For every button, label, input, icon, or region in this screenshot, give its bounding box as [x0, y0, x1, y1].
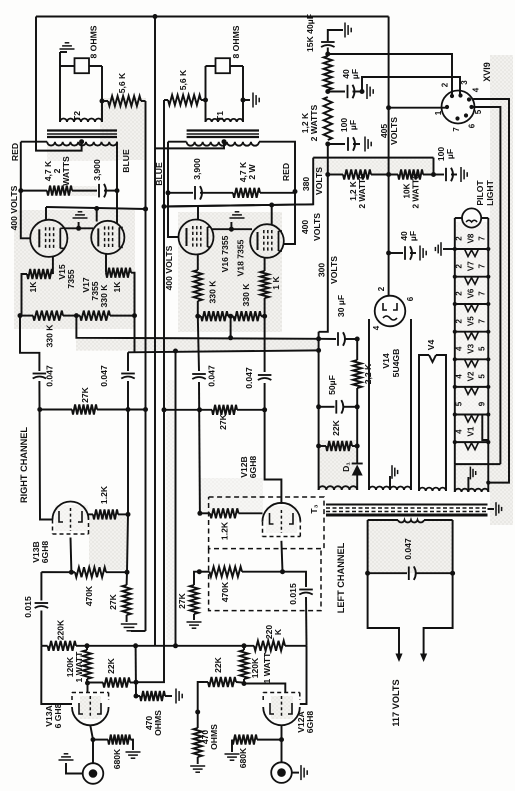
svg-text:V18 7355: V18 7355: [236, 239, 246, 276]
node 40uF second junction: [360, 89, 365, 94]
capacitor 0.047 left-b: [258, 374, 272, 376]
node 330K left ends: [195, 314, 200, 319]
socket XV19 circle: [442, 91, 475, 124]
T3 primary winding: [368, 519, 398, 521]
tube V15 7355 envelope: [30, 220, 67, 257]
svg-text:2: 2: [454, 291, 463, 296]
svg-text:117 VOLTS: 117 VOLTS: [391, 679, 401, 726]
ground T3 core: [488, 508, 495, 510]
ground cathode right channel: [78, 222, 80, 228]
wire 0.015 to bus: [40, 611, 42, 646]
wire 400V screen rail left: [164, 204, 313, 206]
svg-text:2: 2: [454, 263, 463, 268]
svg-text:2: 2: [454, 318, 463, 323]
svg-text:0.015: 0.015: [23, 596, 33, 618]
diode D1: [356, 462, 358, 464]
resistor 470 OHMS right: [136, 695, 140, 697]
svg-text:µF: µF: [350, 69, 360, 79]
node 40uF third tap: [386, 251, 391, 256]
node rail A left-mid: [228, 335, 233, 340]
tube V18 internals: [257, 232, 259, 250]
svg-text:VOLTS: VOLTS: [329, 256, 339, 284]
capacitor 0.047 right-a: [33, 373, 47, 375]
svg-text:330 K: 330 K: [208, 280, 218, 304]
capacitor 100uF first: [328, 143, 345, 145]
node rail B branch: [173, 349, 178, 354]
wire V13A grid line: [41, 646, 72, 704]
tube V18 7355 envelope: [250, 224, 284, 258]
node screen rail left start: [162, 204, 167, 209]
resistor 22K right: [88, 682, 104, 684]
wire XV19 pin5 to heater string: [472, 107, 501, 464]
node 405V pin1 tap: [386, 105, 391, 110]
wire T3 primary box: [367, 520, 369, 573]
wire B+ left drop to T2: [36, 17, 82, 151]
wire rail B corner drop: [127, 352, 129, 371]
ground heater winding center: [467, 477, 469, 492]
transformer T2 primary winding: [47, 142, 117, 146]
node 680K left junction: [279, 737, 284, 742]
svg-text:1 K: 1 K: [271, 276, 281, 290]
svg-text:120K: 120K: [250, 657, 260, 678]
svg-text:5: 5: [477, 374, 486, 379]
heater rung V1 pin9: [455, 414, 489, 416]
node 330K right ends: [18, 313, 23, 318]
resistor 470K right: [41, 571, 75, 573]
ground 40uF third: [410, 252, 416, 254]
heater rung V3: [455, 358, 489, 360]
node 680K right junction: [91, 737, 96, 742]
ground 40uF second: [353, 91, 363, 93]
node bias rail joints: [316, 336, 321, 341]
svg-text:0.047: 0.047: [403, 538, 413, 560]
transformer T2 core: [47, 129, 117, 131]
node 40uF-2 tap: [325, 89, 330, 94]
wire BLUE lead to V16 plate: [168, 193, 179, 237]
resistor 1.2K left: [200, 512, 210, 514]
resistor 22K bias: [319, 445, 326, 447]
wire coupling right-b down: [127, 381, 129, 514]
node heater pin4 join: [486, 481, 490, 485]
capacitor 3900 right: [98, 184, 100, 198]
wire V17 screen riser: [96, 209, 98, 222]
jack input right channel: [83, 763, 104, 784]
svg-text:6GH8: 6GH8: [305, 711, 315, 734]
transformer T1 primary winding: [187, 142, 259, 146]
ground T1 secondary: [243, 99, 250, 101]
wire coupling right-a to V13B grid: [39, 381, 53, 520]
pilot light lamp: [455, 217, 462, 219]
wire bias box top right: [345, 338, 357, 340]
wire to XV19 pin 2: [328, 54, 452, 96]
tube V13B dashed box: [52, 520, 54, 535]
svg-text:BLUE: BLUE: [121, 149, 131, 173]
svg-text:7: 7: [477, 291, 486, 296]
wire V16 V18 cathode link: [211, 228, 252, 230]
wire heater box rails: [454, 464, 456, 492]
svg-text:27K: 27K: [80, 386, 90, 403]
wire bias box left rail: [318, 332, 320, 490]
tube V12A internals: [270, 703, 274, 714]
svg-text:0.047: 0.047: [244, 367, 254, 389]
svg-text:3,900: 3,900: [192, 158, 202, 180]
svg-text:380: 380: [301, 177, 311, 192]
ground 470 ohms right: [175, 689, 177, 704]
svg-text:50µF: 50µF: [327, 375, 337, 395]
svg-text:K: K: [273, 628, 283, 635]
heater winding: [455, 489, 489, 492]
heater rung V6: [455, 303, 489, 305]
svg-text:V5: V5: [466, 316, 475, 326]
transformer T1 core: [187, 129, 259, 131]
svg-text:5: 5: [474, 109, 483, 114]
node pin2 tap: [325, 52, 330, 57]
svg-text:1 WATT: 1 WATT: [74, 651, 84, 683]
node 470ohm left junction: [195, 710, 200, 715]
node T2 primary center tap: [79, 139, 84, 144]
transformer T1 secondary winding: [206, 119, 244, 122]
svg-text:8 OHMS: 8 OHMS: [231, 25, 241, 58]
svg-text:V6: V6: [466, 288, 475, 298]
wire V12A cathode to jack: [281, 725, 283, 763]
node 22K right junction: [134, 680, 139, 685]
wire heater bottom rung: [455, 463, 501, 465]
resistor 10K 2WATTS: [398, 170, 423, 180]
svg-text:8 OHMS: 8 OHMS: [89, 25, 99, 58]
svg-text:6 GH8: 6 GH8: [53, 703, 63, 728]
svg-text:5,6 K: 5,6 K: [117, 72, 127, 93]
svg-text:7: 7: [477, 236, 486, 241]
svg-text:V2: V2: [466, 371, 475, 381]
svg-text:XVI9: XVI9: [482, 62, 492, 82]
resistor 5.6K right channel feedback: [108, 96, 141, 106]
svg-text:680K: 680K: [112, 748, 122, 769]
svg-text:7: 7: [452, 127, 461, 132]
wire to XV19 pin 1: [389, 107, 446, 109]
node T1 primary center tap: [222, 139, 227, 144]
svg-text:7: 7: [477, 318, 486, 323]
resistor 1.2K right: [89, 513, 94, 515]
ground 40uF input cap: [328, 30, 343, 41]
wire V17 grid line drop: [134, 273, 136, 352]
tube V12A dashed top: [262, 693, 264, 701]
node 3900 left junction: [166, 190, 171, 195]
node screen rail right end: [143, 207, 148, 212]
wire coupling left-a to 1.2K: [198, 382, 201, 513]
wire right grid jog to coupling: [20, 316, 39, 371]
ground 100uF first: [353, 143, 360, 145]
resistor 1K V17 grid: [105, 254, 107, 273]
svg-text:µF: µF: [408, 231, 418, 241]
ground 470 ohms left: [190, 765, 205, 767]
tube V16 7355 envelope: [179, 220, 214, 255]
capacitor 40uF third: [389, 252, 403, 254]
svg-text:400: 400: [300, 220, 310, 235]
node V12A plate junction: [242, 681, 247, 686]
node T1 secondary right tap: [241, 98, 246, 103]
svg-text:V16 7355: V16 7355: [220, 235, 230, 272]
wire 27K row to rail: [128, 409, 146, 411]
resistor 330K left-a: [201, 311, 228, 321]
node 405V junction: [325, 172, 330, 177]
wire T1 center tap to B+ line: [155, 142, 224, 149]
ground jack left: [291, 772, 299, 774]
wire bias box top link: [319, 338, 336, 340]
resistor 1.2K 2 WATTS chain: [324, 97, 332, 140]
bias winding: [319, 486, 358, 490]
svg-text:4: 4: [454, 374, 463, 379]
resistor 2.2K: [353, 360, 361, 388]
svg-text:4: 4: [454, 346, 463, 351]
ground jack right: [66, 763, 83, 774]
svg-text:2: 2: [454, 236, 463, 241]
node T2 secondary tap: [100, 99, 105, 104]
svg-text:7355: 7355: [66, 269, 76, 288]
wire to XV19 pin 3: [362, 77, 460, 95]
svg-text:300: 300: [317, 263, 327, 278]
svg-text:VOLTS: VOLTS: [314, 167, 324, 195]
resistor 330K right-a: [20, 315, 33, 317]
node T1 secondary left tap: [203, 98, 208, 103]
wire V1 pin9 stub: [482, 415, 488, 441]
svg-text:µF: µF: [348, 120, 358, 130]
svg-text:4: 4: [372, 325, 381, 330]
capacitor 0.015 right: [40, 572, 42, 600]
wire bias box right rail upper: [356, 339, 358, 360]
ground 100uF second: [451, 174, 457, 176]
wire rail B branch to bus: [175, 351, 177, 646]
svg-text:1: 1: [434, 110, 443, 115]
svg-text:LIGHT: LIGHT: [485, 179, 495, 206]
wire coupling left-a down: [198, 316, 199, 371]
capacitor 40uF second: [328, 91, 345, 93]
svg-text:0.047: 0.047: [99, 365, 109, 387]
wire B+ top rail: [36, 16, 389, 18]
svg-text:680K: 680K: [238, 747, 248, 768]
tube V13B internals: [59, 511, 63, 522]
resistor 1K V18 grid: [264, 258, 266, 271]
node 100uF tap: [325, 142, 330, 147]
svg-text:1K: 1K: [28, 281, 38, 293]
wire 405V rail: [388, 17, 390, 297]
node 1.2K left junction: [197, 511, 202, 516]
wire 380V drop: [164, 158, 313, 207]
wire feedback line left channel: [136, 100, 164, 682]
transformer T2 secondary winding: [60, 118, 102, 122]
resistor 220K right: [48, 641, 76, 651]
svg-text:V3: V3: [466, 343, 475, 353]
ground 27K right: [121, 623, 137, 625]
node V18 screen tap: [269, 203, 274, 208]
heater rung V2: [455, 386, 489, 388]
svg-text:1.2K: 1.2K: [220, 521, 230, 540]
svg-text:0.047: 0.047: [45, 365, 55, 387]
node V13A plate junction: [85, 681, 90, 686]
wire BLUE lead right channel / V17 plate: [116, 142, 118, 191]
wire chain 300V rail: [319, 144, 328, 332]
wire V4 box: [419, 355, 429, 491]
speaker left channel 8 ohms: [216, 58, 231, 73]
wire heater left rail: [454, 218, 456, 464]
svg-text:5,6 K: 5,6 K: [178, 69, 188, 90]
svg-text:27K: 27K: [108, 593, 118, 610]
resistor 15K: [324, 56, 332, 90]
wire feedback line right channel: [145, 101, 147, 631]
wire 380V source drop: [433, 158, 435, 175]
svg-text:OHMS: OHMS: [153, 710, 163, 736]
node 27K right row right: [126, 407, 131, 412]
wire T1 red lead to V18 plate: [259, 142, 295, 244]
svg-text:T₃: T₃: [309, 504, 319, 513]
wire bias right rail mid: [356, 388, 358, 462]
svg-text:5: 5: [454, 401, 463, 406]
svg-text:10K: 10K: [402, 183, 411, 198]
wire coupling left-b down: [264, 316, 266, 372]
svg-text:15K 40µF: 15K 40µF: [305, 14, 315, 52]
wire chain top: [327, 48, 329, 57]
svg-text:0.015: 0.015: [288, 583, 298, 605]
capacitor 100uF second: [434, 174, 445, 176]
heater rung V1: [455, 441, 489, 443]
wire V18 screen riser: [271, 205, 273, 225]
svg-text:1K: 1K: [112, 281, 122, 293]
svg-text:27K: 27K: [218, 413, 228, 430]
svg-text:2 WATTS: 2 WATTS: [309, 104, 319, 141]
wire coupling right-b to 470K: [127, 514, 128, 572]
speaker right channel 8 ohms: [75, 58, 90, 73]
svg-text:1,2 K: 1,2 K: [349, 181, 358, 201]
arrow 117V right: [420, 654, 427, 663]
wire V12B cathode: [281, 541, 282, 572]
wire 22K left to 470ohm: [198, 682, 204, 712]
svg-text:BLUE: BLUE: [154, 162, 164, 186]
svg-text:6: 6: [406, 296, 415, 301]
svg-text:V7: V7: [466, 261, 475, 271]
tube V12B internals: [270, 513, 274, 524]
wire V13A cathode to jack: [90, 725, 93, 763]
wire 380V link: [313, 157, 433, 159]
svg-text:V14: V14: [381, 353, 391, 369]
wire heater right rail: [487, 218, 489, 483]
ground 27K left: [187, 621, 202, 623]
wire T2 red lead: [21, 141, 47, 143]
node V17 screen tap: [94, 206, 99, 211]
wire HV winding box rails: [368, 319, 370, 490]
svg-text:9: 9: [477, 401, 486, 406]
node 470ohm right junction: [134, 694, 139, 699]
svg-text:400 VOLTS: 400 VOLTS: [164, 245, 174, 290]
svg-text:6GH8: 6GH8: [248, 456, 258, 479]
resistor 5.6K left channel feedback: [168, 95, 201, 105]
ground 680K left: [225, 753, 240, 755]
wire V12A plate lead: [244, 684, 285, 693]
ground heater top: [443, 248, 455, 250]
wire 400V screen rail right: [45, 207, 47, 220]
svg-text:2: 2: [440, 82, 449, 87]
tube V13A dashed top: [71, 693, 73, 701]
node bias right top: [355, 337, 360, 342]
node 380V source junction: [431, 172, 436, 177]
node bias right joints: [355, 404, 360, 409]
V4 winding: [419, 488, 446, 491]
svg-text:2 WATTS: 2 WATTS: [411, 173, 420, 208]
svg-text:LEFT CHANNEL: LEFT CHANNEL: [336, 542, 346, 613]
capacitor 0.047 line: [368, 572, 407, 574]
svg-text:330 K: 330 K: [45, 324, 55, 348]
wire T1 blue lead left: [168, 141, 187, 143]
svg-text:2 W: 2 W: [247, 163, 257, 179]
node 27K left row right: [262, 407, 267, 412]
capacitor 0.047 left-a: [192, 373, 206, 375]
HV winding: [369, 486, 411, 490]
resistor 470K left: [199, 571, 209, 573]
capacitor 50uF: [335, 400, 337, 414]
svg-text:V8: V8: [466, 233, 475, 243]
resistor 330K V16 grid: [197, 255, 199, 271]
ground cathode left channel: [230, 222, 232, 229]
wire left middle to rail A: [230, 316, 232, 338]
svg-text:470K: 470K: [220, 581, 230, 602]
capacitor 30uF: [337, 332, 339, 346]
node cathode link right channel: [76, 226, 81, 231]
wire V16 screen riser: [197, 206, 199, 220]
wire V15 V17 cathode link: [64, 227, 93, 229]
svg-text:4: 4: [471, 87, 480, 92]
resistor 330K right-b: [80, 311, 110, 321]
svg-text:4: 4: [454, 429, 463, 434]
wire B+ middle line: [154, 17, 156, 646]
wire 0.015 left to bus: [305, 597, 308, 646]
resistor 22K left: [204, 681, 208, 683]
tube V12A 6GH8 envelope: [263, 707, 300, 725]
svg-text:V1: V1: [466, 426, 475, 436]
svg-text:6GH8: 6GH8: [40, 541, 50, 564]
wire V13B cathode: [70, 538, 73, 573]
socket XV19 pins: [445, 105, 449, 109]
node cathode link left channel: [229, 227, 234, 232]
capacitor 0.047 right-b: [121, 373, 135, 375]
node primary box corners: [365, 571, 370, 576]
svg-text:470K: 470K: [84, 585, 94, 606]
node 4.7K tap: [18, 188, 23, 193]
svg-text:27K: 27K: [177, 592, 187, 609]
resistor 4.7K 2 WATTS right: [21, 190, 47, 192]
node 470K left ends: [197, 569, 202, 574]
svg-text:µF: µF: [445, 149, 455, 159]
svg-text:22K: 22K: [213, 656, 223, 673]
wire bias rail A: [76, 316, 318, 339]
svg-text:D₁: D₁: [341, 462, 351, 472]
svg-text:22K: 22K: [106, 657, 116, 674]
svg-text:330 K: 330 K: [241, 283, 251, 307]
heater rung V7: [455, 276, 489, 278]
tube V12B 6GH8 envelope: [262, 503, 300, 522]
wire XV19 pin4 to heater rail: [472, 99, 510, 483]
svg-text:30 µF: 30 µF: [336, 295, 346, 317]
wire V12A grid line: [300, 646, 307, 704]
svg-text:330 K: 330 K: [99, 284, 109, 308]
wire bias rail B: [128, 350, 319, 352]
node 27K right row left: [37, 407, 42, 412]
wire grid bus: [41, 645, 47, 647]
resistor 120K 1WATT right: [83, 650, 91, 679]
svg-text:WATTS: WATTS: [61, 156, 71, 186]
capacitor 0.015 left: [283, 572, 307, 587]
resistor 1K V15 grid: [52, 257, 54, 274]
tube V14 5U4GB envelope: [375, 296, 406, 327]
svg-text:3,900: 3,900: [92, 159, 102, 181]
node rail 27K left: [162, 407, 167, 412]
